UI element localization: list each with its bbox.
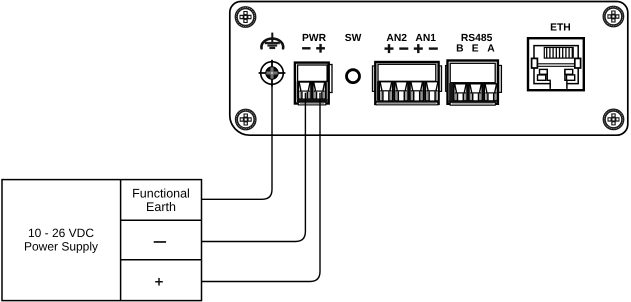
functional earth symbol (261, 33, 283, 50)
svg-text:RS485: RS485 (461, 33, 493, 44)
svg-text:10 - 26 VDC: 10 - 26 VDC (28, 226, 94, 240)
PWR pin minus (298, 82, 311, 99)
pins (547, 48, 573, 57)
right step lower (567, 75, 575, 80)
wire: plus (box row3 to PWR +) (202, 93, 321, 282)
connector AN2/AN1 (372, 62, 441, 105)
AN pin 4 (426, 82, 439, 101)
AN1 minus mark (429, 47, 438, 49)
svg-text:SW: SW (345, 33, 362, 44)
svg-text:Functional: Functional (132, 187, 190, 201)
wire: functional earth (box row1 to earth screw) (202, 84, 273, 199)
panel faceplate (230, 2, 628, 136)
AN2 minus mark (399, 47, 408, 49)
svg-text:Power Supply: Power Supply (24, 240, 98, 254)
connector PWR (295, 63, 332, 105)
PWR pin plus (313, 82, 326, 99)
svg-text:ETH: ETH (550, 22, 571, 33)
crossbar below pins (534, 64, 578, 67)
AN base (375, 101, 440, 102)
svg-text:Earth: Earth (146, 200, 176, 214)
svg-text:A: A (487, 44, 495, 55)
left step channel edge (547, 69, 550, 83)
minus terminal mark (154, 241, 166, 243)
RS485 pin A (484, 84, 497, 101)
AN pin 3 (410, 82, 423, 101)
RS485 pin E (469, 84, 482, 101)
svg-text:E: E (472, 44, 479, 55)
svg-text:AN2: AN2 (386, 33, 407, 44)
RS485 pin B (454, 84, 467, 101)
svg-text:B: B (456, 44, 463, 55)
AN2 plus mark (385, 44, 394, 53)
left step upper (540, 69, 548, 74)
left step lower (538, 75, 546, 80)
divider vertical (120, 180, 122, 301)
screw BL (235, 109, 256, 130)
connector RS485 (445, 61, 501, 106)
screw TL (235, 7, 256, 28)
plus terminal mark (155, 278, 163, 286)
power supply box (2, 180, 202, 301)
svg-text:PWR: PWR (302, 33, 327, 44)
screw BR (603, 109, 624, 130)
pin block frame (544, 48, 573, 59)
right side tab (575, 58, 581, 68)
right step upper (565, 69, 573, 74)
AN1 plus mark (414, 44, 423, 53)
socket outline with open bottom channel (534, 46, 578, 89)
right step channel edge (565, 69, 567, 83)
PWR base (297, 99, 328, 102)
divider row2/row3 (121, 259, 202, 261)
earth terminal screw (259, 60, 286, 87)
AN pin 1 (379, 82, 392, 101)
RS485 base (449, 101, 497, 103)
screw TR (603, 6, 624, 27)
wire: minus (box row2 to PWR -) (202, 93, 306, 242)
PWR minus mark (302, 47, 310, 49)
svg-text:AN1: AN1 (415, 33, 436, 44)
SW button (347, 70, 360, 83)
divider row1/row2 (121, 219, 202, 221)
AN pin 2 (395, 82, 408, 101)
PWR plus mark (316, 44, 325, 53)
left side tab (532, 58, 538, 68)
ETH RJ45 jack (528, 38, 584, 90)
